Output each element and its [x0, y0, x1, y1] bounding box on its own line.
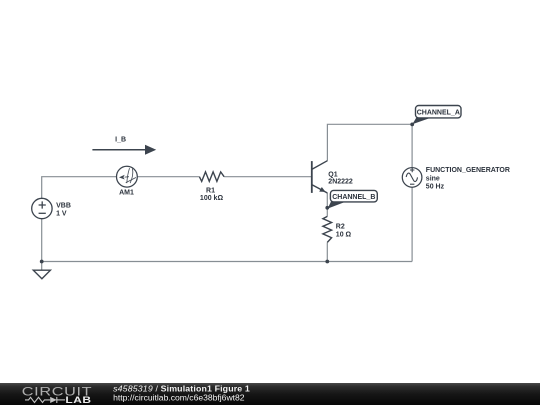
svg-text:10 Ω: 10 Ω — [336, 232, 352, 239]
svg-text:CHANNEL_A: CHANNEL_A — [417, 109, 460, 116]
svg-text:sine: sine — [426, 175, 440, 182]
svg-text:Q1: Q1 — [328, 171, 337, 178]
svg-text:50 Hz: 50 Hz — [426, 183, 445, 190]
svg-text:s4585319 / Simulation1 Figure: s4585319 / Simulation1 Figure 1 — [113, 384, 250, 393]
svg-text:2N2222: 2N2222 — [328, 179, 353, 186]
svg-text:FUNCTION_GENERATOR: FUNCTION_GENERATOR — [426, 167, 510, 174]
svg-text:R1: R1 — [206, 187, 215, 194]
svg-text:100 kΩ: 100 kΩ — [200, 195, 224, 202]
svg-text:http://circuitlab.com/c6e38bfj: http://circuitlab.com/c6e38bfj6wt82 — [113, 394, 245, 403]
svg-text:VBB: VBB — [56, 203, 71, 210]
svg-text:R2: R2 — [336, 223, 345, 230]
svg-text:CHANNEL_B: CHANNEL_B — [332, 194, 375, 201]
svg-text:1 V: 1 V — [56, 210, 67, 217]
svg-text:AM1: AM1 — [119, 189, 134, 196]
svg-text:I_B: I_B — [115, 137, 126, 144]
svg-text:LAB: LAB — [65, 395, 91, 405]
